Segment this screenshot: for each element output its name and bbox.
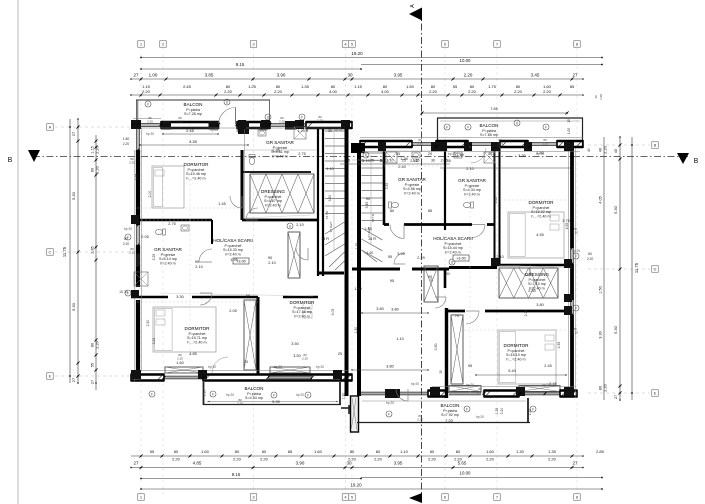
svg-text:2.20: 2.20 (604, 146, 608, 153)
svg-text:90: 90 (195, 260, 199, 264)
svg-text:18 R: 18 R (321, 237, 329, 241)
svg-text:15: 15 (439, 370, 443, 374)
svg-text:2.75: 2.75 (298, 152, 305, 156)
svg-text:F: F (545, 125, 547, 129)
svg-text:2.20: 2.20 (233, 457, 242, 462)
svg-text:B: B (654, 143, 657, 148)
svg-text:2.10: 2.10 (496, 255, 503, 259)
svg-text:3.80: 3.80 (391, 308, 398, 312)
svg-text:hp·20: hp·20 (476, 415, 484, 419)
svg-text:25: 25 (338, 352, 342, 356)
svg-text:S=7.92 mp: S=7.92 mp (441, 413, 459, 417)
svg-text:DORMITOR: DORMITOR (529, 200, 555, 205)
svg-text:65: 65 (246, 294, 250, 298)
svg-text:B: B (694, 158, 699, 165)
svg-text:18 R: 18 R (368, 237, 376, 241)
svg-text:F: F (127, 291, 129, 295)
svg-text:1.20: 1.20 (272, 149, 279, 153)
svg-text:F: F (446, 125, 448, 129)
svg-text:2.85: 2.85 (596, 449, 605, 454)
svg-text:27: 27 (71, 377, 76, 382)
svg-text:3.30: 3.30 (385, 183, 389, 190)
svg-text:2.20: 2.20 (486, 457, 495, 462)
svg-text:3.80: 3.80 (386, 365, 393, 369)
svg-text:1.35: 1.35 (400, 157, 407, 161)
svg-text:F: F (388, 412, 390, 416)
svg-text:DORMITOR: DORMITOR (184, 162, 210, 167)
svg-text:1.50: 1.50 (406, 84, 415, 89)
svg-text:h…=2.40 m: h…=2.40 m (187, 340, 206, 344)
svg-text:5.45: 5.45 (365, 202, 369, 209)
svg-text:11.75: 11.75 (62, 246, 67, 257)
svg-text:1.75: 1.75 (355, 243, 359, 250)
svg-text:27: 27 (133, 73, 139, 78)
svg-text:1.45: 1.45 (364, 227, 371, 231)
svg-text:2.20: 2.20 (96, 341, 100, 348)
svg-text:DORMITOR: DORMITOR (185, 326, 211, 331)
svg-text:2.20: 2.20 (129, 250, 135, 254)
svg-text:30: 30 (236, 129, 240, 133)
svg-text:80: 80 (456, 449, 461, 454)
svg-text:4.55: 4.55 (565, 223, 569, 230)
svg-text:1.30: 1.30 (354, 327, 358, 334)
svg-text:1.50: 1.50 (599, 286, 603, 293)
svg-text:DRESSING: DRESSING (261, 189, 285, 194)
svg-text:3.50: 3.50 (293, 354, 300, 358)
svg-text:h…=2.40 m: h…=2.40 m (506, 357, 525, 361)
svg-text:A: A (410, 4, 416, 8)
svg-text:3.75: 3.75 (562, 219, 569, 223)
svg-text:9.15: 9.15 (236, 62, 245, 67)
svg-text:3.30: 3.30 (176, 295, 183, 299)
svg-text:5.30: 5.30 (613, 325, 618, 334)
svg-text:27: 27 (71, 131, 76, 136)
svg-text:1.80: 1.80 (486, 395, 493, 399)
svg-text:5.30: 5.30 (71, 302, 76, 311)
svg-text:5.40: 5.40 (508, 369, 515, 373)
svg-text:95: 95 (388, 255, 392, 259)
svg-text:F: F (467, 125, 469, 129)
svg-text:27: 27 (614, 395, 618, 399)
svg-text:2.10: 2.10 (296, 223, 303, 227)
svg-text:2.29: 2.29 (417, 256, 424, 260)
svg-text:F: F (127, 235, 129, 239)
svg-text:2.20: 2.20 (96, 166, 100, 173)
svg-text:hp·20: hp·20 (146, 132, 154, 136)
svg-text:hp·20: hp·20 (210, 128, 218, 132)
svg-text:1.00: 1.00 (149, 73, 158, 78)
svg-text:7.65: 7.65 (490, 107, 497, 111)
svg-text:hp·20: hp·20 (466, 383, 474, 387)
svg-text:hp·20: hp·20 (411, 382, 419, 386)
svg-text:GR SANITAR: GR SANITAR (458, 178, 486, 183)
svg-text:4.85: 4.85 (193, 461, 202, 466)
svg-text:1.10: 1.10 (387, 159, 394, 163)
svg-text:80: 80 (390, 209, 394, 213)
svg-text:55: 55 (150, 449, 155, 454)
svg-text:2.75: 2.75 (168, 222, 175, 226)
svg-text:F: F (273, 393, 275, 397)
svg-text:55: 55 (453, 84, 458, 89)
svg-text:hp·20: hp·20 (124, 227, 132, 231)
svg-text:4.05: 4.05 (599, 196, 603, 203)
svg-text:1.15: 1.15 (91, 146, 95, 153)
svg-text:2.20: 2.20 (548, 457, 557, 462)
svg-text:GR SANITAR: GR SANITAR (266, 140, 294, 145)
svg-text:3.90: 3.90 (277, 73, 286, 78)
svg-text:2.05: 2.05 (141, 235, 148, 239)
svg-text:1.10: 1.10 (326, 167, 333, 171)
svg-text:30: 30 (346, 461, 352, 466)
svg-text:5.65: 5.65 (458, 461, 467, 466)
svg-text:27: 27 (572, 461, 578, 466)
svg-text:h…=2.40 m: h…=2.40 m (186, 176, 205, 180)
svg-text:HOL/CASA SCARII: HOL/CASA SCARII (433, 236, 473, 241)
svg-text:30: 30 (396, 152, 400, 156)
svg-text:h=2.40 m: h=2.40 m (464, 192, 479, 196)
svg-text:A: A (49, 125, 52, 130)
svg-text:hp·20: hp·20 (274, 365, 282, 369)
svg-text:40: 40 (599, 148, 603, 152)
svg-text:25: 25 (346, 159, 350, 163)
svg-text:9.15: 9.15 (232, 472, 241, 477)
svg-text:1.10: 1.10 (396, 337, 403, 341)
svg-text:1.35: 1.35 (548, 449, 557, 454)
svg-text:B: B (8, 157, 13, 164)
svg-text:15: 15 (567, 119, 571, 123)
svg-text:1.35: 1.35 (495, 408, 499, 415)
svg-text:4.85: 4.85 (189, 352, 196, 356)
svg-text:GR SANITAR: GR SANITAR (154, 247, 182, 252)
svg-text:25: 25 (370, 159, 374, 163)
svg-text:19.20: 19.20 (350, 483, 362, 488)
svg-text:2.05: 2.05 (229, 309, 236, 313)
svg-text:E: E (49, 374, 52, 379)
svg-text:3.50: 3.50 (291, 342, 298, 346)
svg-text:DRESSING: DRESSING (525, 272, 549, 277)
svg-text:hp·20: hp·20 (226, 393, 234, 397)
svg-text:80: 80 (588, 252, 592, 256)
svg-text:3.95: 3.95 (394, 461, 403, 466)
svg-text:2.20: 2.20 (604, 384, 608, 391)
svg-text:2.10: 2.10 (466, 167, 473, 171)
svg-text:10.00: 10.00 (460, 58, 472, 63)
svg-text:30: 30 (347, 73, 353, 78)
svg-text:2.20: 2.20 (302, 356, 308, 360)
svg-text:2.05: 2.05 (494, 197, 498, 204)
svg-text:90: 90 (428, 275, 432, 279)
svg-text:hp·20: hp·20 (258, 128, 266, 132)
svg-text:3.30: 3.30 (518, 154, 525, 158)
svg-text:2.40: 2.40 (398, 165, 405, 169)
svg-text:3.45: 3.45 (531, 73, 540, 78)
svg-text:3.90: 3.90 (296, 461, 305, 466)
svg-text:1.10: 1.10 (400, 449, 409, 454)
svg-text:DORMITOR: DORMITOR (290, 300, 316, 305)
svg-text:hp·20: hp·20 (296, 393, 304, 397)
svg-text:2.20: 2.20 (123, 142, 130, 146)
svg-text:h=2.40 m: h=2.40 m (445, 250, 460, 254)
svg-text:2.20: 2.20 (429, 89, 438, 94)
svg-text:15: 15 (119, 290, 123, 294)
svg-text:2.20: 2.20 (147, 119, 153, 123)
svg-text:80: 80 (91, 343, 95, 347)
svg-text:hp·20: hp·20 (386, 401, 394, 405)
svg-text:5.30: 5.30 (71, 191, 76, 200)
svg-text:2.20: 2.20 (177, 356, 183, 360)
svg-text:2.20: 2.20 (543, 89, 552, 94)
svg-text:95: 95 (468, 364, 472, 368)
svg-text:27: 27 (133, 461, 139, 466)
svg-text:4.00: 4.00 (381, 89, 390, 94)
svg-text:1.20 R: 1.20 R (298, 129, 309, 133)
svg-text:2.10: 2.10 (268, 261, 275, 265)
svg-text:5.30: 5.30 (613, 205, 618, 214)
svg-text:95: 95 (390, 279, 394, 283)
svg-text:80: 80 (235, 449, 240, 454)
svg-text:1.00: 1.00 (599, 94, 603, 100)
svg-text:3.50: 3.50 (434, 344, 438, 351)
svg-text:1.10: 1.10 (362, 159, 369, 163)
svg-text:C: C (49, 250, 52, 255)
svg-text:DORMITOR: DORMITOR (504, 343, 530, 348)
svg-text:2.10: 2.10 (195, 265, 202, 269)
svg-text:BALCON: BALCON (441, 403, 460, 408)
svg-text:h…=2.40 m: h…=2.40 m (531, 214, 550, 218)
svg-text:F: F (147, 102, 149, 106)
svg-text:11.75: 11.75 (634, 262, 639, 273)
svg-text:2.20: 2.20 (468, 89, 477, 94)
svg-text:1.80: 1.80 (123, 137, 130, 141)
svg-text:2.20: 2.20 (500, 408, 504, 415)
svg-text:h=2.40 m: h=2.40 m (272, 154, 287, 158)
svg-text:1.35: 1.35 (301, 84, 310, 89)
svg-text:30: 30 (328, 129, 332, 133)
svg-text:5.05: 5.05 (331, 309, 335, 316)
svg-text:17.6x27: 17.6x27 (329, 221, 333, 232)
svg-text:F: F (532, 407, 534, 411)
svg-text:80: 80 (174, 449, 179, 454)
svg-text:2.35: 2.35 (557, 342, 561, 349)
svg-text:1.35: 1.35 (443, 159, 450, 163)
svg-text:hp·20: hp·20 (208, 365, 216, 369)
svg-text:+3.00: +3.00 (456, 257, 466, 261)
svg-text:3.30: 3.30 (328, 195, 332, 202)
svg-text:3.30: 3.30 (599, 331, 603, 338)
svg-text:40: 40 (587, 148, 591, 152)
svg-text:80: 80 (91, 168, 95, 172)
svg-text:40: 40 (614, 149, 618, 153)
svg-text:2.20: 2.20 (428, 457, 437, 462)
svg-text:BALCON: BALCON (480, 123, 499, 128)
svg-text:80: 80 (262, 449, 267, 454)
svg-text:HOL/CASA SCARII: HOL/CASA SCARII (213, 238, 253, 243)
svg-text:25: 25 (380, 159, 384, 163)
svg-text:2.45: 2.45 (544, 364, 551, 368)
svg-text:S=7.28 mp: S=7.28 mp (184, 112, 202, 116)
svg-text:80: 80 (599, 386, 603, 390)
svg-text:3.25: 3.25 (152, 254, 156, 261)
svg-text:1.60: 1.60 (176, 361, 183, 365)
svg-text:hp·20: hp·20 (448, 152, 456, 156)
svg-text:7.20: 7.20 (445, 418, 454, 423)
svg-text:2.35: 2.35 (524, 310, 528, 317)
svg-text:2.20: 2.20 (477, 390, 483, 394)
svg-text:2.20: 2.20 (129, 160, 135, 164)
svg-text:1.95: 1.95 (456, 153, 463, 157)
svg-text:2.20: 2.20 (514, 89, 523, 94)
svg-text:3.25: 3.25 (152, 338, 156, 345)
svg-text:2.85: 2.85 (91, 246, 95, 253)
svg-text:F: F (466, 407, 468, 411)
svg-text:h=2.40 m: h=2.40 m (225, 252, 240, 256)
svg-text:10.00: 10.00 (460, 471, 472, 476)
svg-text:F: F (301, 115, 303, 119)
svg-text:2.20: 2.20 (374, 457, 383, 462)
svg-text:D: D (654, 267, 657, 272)
svg-text:5.95: 5.95 (272, 400, 279, 404)
svg-text:hp·20: hp·20 (536, 152, 544, 156)
svg-text:3.95: 3.95 (394, 73, 403, 78)
svg-text:3.80: 3.80 (536, 303, 543, 307)
svg-text:85: 85 (570, 84, 575, 89)
svg-text:1.15: 1.15 (354, 84, 363, 89)
svg-text:3.80: 3.80 (376, 307, 383, 311)
svg-text:2.20: 2.20 (123, 242, 130, 246)
svg-text:hp·20: hp·20 (572, 249, 580, 253)
svg-text:h=2.40 m: h=2.40 m (404, 191, 419, 195)
svg-text:40: 40 (488, 152, 492, 156)
svg-text:F: F (365, 153, 367, 157)
svg-text:2.20: 2.20 (587, 257, 594, 261)
svg-text:2.20: 2.20 (142, 89, 151, 94)
svg-text:85: 85 (428, 209, 432, 213)
svg-text:90: 90 (366, 197, 370, 201)
svg-text:2.20: 2.20 (177, 119, 183, 123)
svg-text:70: 70 (455, 314, 459, 318)
svg-text:1.00: 1.00 (567, 128, 571, 134)
svg-text:2.20: 2.20 (224, 89, 233, 94)
svg-text:1.60: 1.60 (486, 449, 495, 454)
svg-text:2.45: 2.45 (186, 128, 195, 133)
svg-text:S=4.54 mp: S=4.54 mp (245, 396, 263, 400)
svg-text:1.60: 1.60 (314, 449, 323, 454)
svg-text:2.20: 2.20 (274, 89, 283, 94)
svg-text:GR SANITAR: GR SANITAR (398, 177, 426, 182)
svg-text:2.45: 2.45 (549, 382, 556, 386)
svg-text:S=7.65 mp: S=7.65 mp (480, 133, 498, 137)
svg-text:4.35: 4.35 (189, 139, 198, 144)
svg-text:h=2.40 m: h=2.40 m (160, 261, 175, 265)
svg-text:1.60: 1.60 (201, 449, 210, 454)
svg-text:4.00: 4.00 (329, 89, 338, 94)
svg-text:90: 90 (268, 256, 272, 260)
svg-text:80: 80 (350, 449, 355, 454)
svg-text:1.30: 1.30 (342, 393, 346, 400)
svg-text:2.20: 2.20 (497, 141, 503, 145)
svg-text:2.20: 2.20 (417, 141, 423, 145)
svg-text:2.45: 2.45 (183, 84, 192, 89)
svg-text:1.30: 1.30 (528, 409, 532, 416)
svg-text:1.45: 1.45 (218, 202, 225, 206)
svg-text:2.20: 2.20 (417, 417, 423, 421)
svg-text:27: 27 (91, 380, 95, 384)
svg-text:BALCON: BALCON (245, 386, 264, 391)
svg-text:2.20: 2.20 (237, 401, 243, 405)
svg-text:hp·20: hp·20 (542, 383, 550, 387)
svg-text:18 TR: 18 TR (371, 213, 375, 222)
svg-text:4.55: 4.55 (536, 233, 543, 237)
svg-text:2.20: 2.20 (172, 457, 181, 462)
svg-text:55: 55 (91, 363, 95, 367)
svg-text:E: E (654, 391, 657, 396)
svg-text:2.20: 2.20 (96, 146, 100, 153)
svg-text:F: F (151, 392, 153, 396)
svg-text:85: 85 (288, 449, 293, 454)
svg-text:1.30: 1.30 (516, 449, 525, 454)
svg-text:80: 80 (430, 449, 435, 454)
svg-text:2.00: 2.00 (148, 191, 152, 198)
svg-text:18 TR: 18 TR (325, 210, 329, 219)
svg-text:3.85: 3.85 (205, 73, 214, 78)
svg-text:2.30: 2.30 (528, 289, 535, 293)
svg-text:1.75: 1.75 (488, 84, 497, 89)
svg-text:2.20: 2.20 (279, 119, 285, 123)
svg-text:2.20: 2.20 (317, 118, 323, 122)
svg-text:1.60: 1.60 (354, 287, 361, 291)
svg-text:27: 27 (572, 73, 578, 78)
svg-text:h=2.40 m: h=2.40 m (265, 203, 280, 207)
svg-text:F: F (212, 392, 214, 396)
svg-text:70: 70 (244, 360, 248, 364)
svg-text:hp·20: hp·20 (334, 128, 342, 132)
svg-text:2.20: 2.20 (260, 457, 269, 462)
svg-text:90: 90 (446, 272, 450, 276)
svg-text:19.20: 19.20 (351, 51, 363, 56)
svg-text:1.25: 1.25 (248, 84, 257, 89)
svg-text:1.90: 1.90 (203, 390, 207, 397)
svg-text:2.20: 2.20 (572, 230, 578, 234)
svg-text:3.95: 3.95 (397, 252, 404, 256)
svg-text:3.35: 3.35 (135, 174, 139, 181)
svg-text:h=2.40 m: h=2.40 m (294, 314, 309, 318)
svg-text:2.45: 2.45 (410, 159, 417, 163)
svg-text:80: 80 (376, 449, 381, 454)
svg-text:30: 30 (431, 159, 435, 163)
svg-text:2.30: 2.30 (146, 320, 150, 327)
svg-text:hp·20: hp·20 (316, 365, 324, 369)
svg-text:20: 20 (428, 152, 432, 156)
svg-text:BALCON: BALCON (184, 102, 203, 107)
svg-text:1.60: 1.60 (367, 251, 374, 255)
svg-text:16: 16 (594, 95, 598, 99)
svg-text:1.95: 1.95 (230, 258, 237, 262)
svg-text:2.20: 2.20 (542, 141, 548, 145)
svg-text:F: F (307, 393, 309, 397)
svg-text:2.20: 2.20 (464, 73, 473, 78)
svg-text:2.20: 2.20 (572, 330, 578, 334)
